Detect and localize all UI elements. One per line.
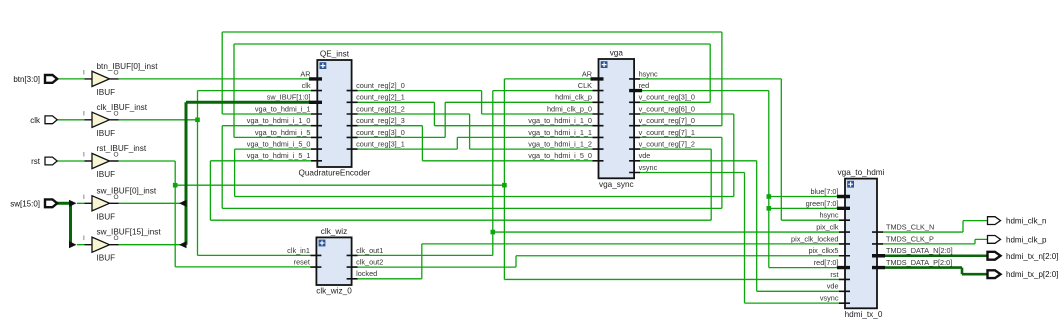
svg-text:hsync: hsync [639, 69, 658, 78]
svg-text:sw_IBUF[1:0]: sw_IBUF[1:0] [267, 93, 311, 102]
svg-text:vsync: vsync [820, 294, 839, 303]
svg-text:vga_to_hdmi_i_5: vga_to_hdmi_i_5 [255, 128, 311, 137]
svg-text:vga_to_hdmi_i_5_1: vga_to_hdmi_i_5_1 [247, 151, 311, 160]
svg-text:btn[3:0]: btn[3:0] [13, 75, 40, 84]
svg-text:v_count_reg[7]_0: v_count_reg[7]_0 [639, 116, 695, 125]
svg-text:QuadratureEncoder: QuadratureEncoder [298, 169, 370, 178]
svg-text:hdmi_clk_p_0: hdmi_clk_p_0 [547, 104, 592, 113]
svg-text:vga_to_hdmi_i_1_0: vga_to_hdmi_i_1_0 [528, 116, 592, 125]
svg-text:rst_IBUF_inst: rst_IBUF_inst [97, 144, 147, 153]
svg-text:vga_to_hdmi_i_1_0: vga_to_hdmi_i_1_0 [247, 116, 311, 125]
svg-text:I: I [83, 235, 85, 242]
svg-text:I: I [83, 152, 85, 159]
svg-text:O: O [114, 110, 119, 117]
svg-text:CLK: CLK [578, 81, 592, 90]
svg-text:vga: vga [610, 49, 624, 58]
svg-text:clk: clk [30, 116, 41, 125]
svg-text:hsync: hsync [819, 211, 838, 220]
svg-text:vga_sync: vga_sync [599, 180, 634, 189]
svg-text:rst: rst [31, 157, 41, 166]
svg-text:IBUF: IBUF [97, 88, 116, 97]
svg-text:clk_IBUF_inst: clk_IBUF_inst [97, 103, 148, 112]
svg-text:v_count_reg[7]_2: v_count_reg[7]_2 [639, 140, 695, 149]
svg-text:I: I [83, 110, 85, 117]
svg-text:sw_IBUF[0]_inst: sw_IBUF[0]_inst [97, 186, 157, 195]
svg-text:vga_to_hdmi: vga_to_hdmi [838, 168, 885, 177]
svg-text:blue[7:0]: blue[7:0] [811, 187, 839, 196]
svg-text:I: I [83, 69, 85, 76]
svg-text:AR: AR [582, 69, 592, 78]
svg-text:count_reg[2]_1: count_reg[2]_1 [356, 93, 405, 102]
svg-text:TMDS_CLK_N: TMDS_CLK_N [886, 222, 934, 231]
svg-text:QE_inst: QE_inst [320, 50, 350, 59]
svg-text:hdmi_clk_p: hdmi_clk_p [1006, 235, 1047, 244]
svg-text:vsync: vsync [639, 163, 658, 172]
svg-text:vga_to_hdmi_i_5_0: vga_to_hdmi_i_5_0 [247, 140, 311, 149]
svg-text:O: O [114, 235, 119, 242]
svg-text:clk_in1: clk_in1 [287, 246, 310, 255]
svg-text:IBUF: IBUF [97, 212, 116, 221]
svg-text:vga_to_hdmi_i_5_0: vga_to_hdmi_i_5_0 [528, 151, 592, 160]
svg-text:v_count_reg[7]_1: v_count_reg[7]_1 [639, 128, 695, 137]
svg-text:IBUF: IBUF [97, 170, 116, 179]
svg-text:hdmi_clk_p: hdmi_clk_p [555, 93, 592, 102]
svg-text:O: O [114, 152, 119, 159]
svg-text:btn_IBUF[0]_inst: btn_IBUF[0]_inst [97, 62, 159, 71]
svg-text:vga_to_hdmi_i_1: vga_to_hdmi_i_1 [255, 104, 311, 113]
svg-text:sw[15:0]: sw[15:0] [10, 199, 40, 208]
svg-text:count_reg[2]_0: count_reg[2]_0 [356, 81, 405, 90]
svg-text:pix_clkx5: pix_clkx5 [808, 246, 838, 255]
svg-text:vga_to_hdmi_i_1_2: vga_to_hdmi_i_1_2 [528, 140, 592, 149]
svg-text:clk_out2: clk_out2 [356, 258, 383, 267]
svg-text:count_reg[2]_3: count_reg[2]_3 [356, 116, 405, 125]
svg-text:AR: AR [300, 69, 310, 78]
svg-text:red[7:0]: red[7:0] [814, 258, 839, 267]
svg-text:O: O [114, 194, 119, 201]
svg-text:vga_to_hdmi_i_1_1: vga_to_hdmi_i_1_1 [528, 128, 592, 137]
svg-text:I: I [83, 194, 85, 201]
svg-text:hdmi_tx_n[2:0]: hdmi_tx_n[2:0] [1006, 252, 1058, 261]
svg-text:clk_out1: clk_out1 [356, 246, 383, 255]
svg-text:sw_IBUF[15]_inst: sw_IBUF[15]_inst [97, 228, 162, 237]
svg-text:green[7:0]: green[7:0] [806, 199, 839, 208]
svg-text:v_count_reg[6]_0: v_count_reg[6]_0 [639, 104, 695, 113]
svg-text:reset: reset [294, 258, 310, 267]
svg-text:hdmi_tx_p[2:0]: hdmi_tx_p[2:0] [1006, 270, 1058, 279]
svg-text:locked: locked [356, 269, 377, 278]
svg-text:IBUF: IBUF [97, 129, 116, 138]
svg-text:TMDS_DATA_P[2:0]: TMDS_DATA_P[2:0] [886, 258, 952, 267]
svg-text:clk: clk [302, 81, 311, 90]
svg-text:TMDS_CLK_P: TMDS_CLK_P [886, 234, 934, 243]
svg-text:vde: vde [639, 151, 651, 160]
svg-text:hdmi_clk_n: hdmi_clk_n [1006, 217, 1046, 226]
svg-text:v_count_reg[3]_0: v_count_reg[3]_0 [639, 93, 695, 102]
svg-text:rst: rst [830, 270, 838, 279]
svg-text:hdmi_tx_0: hdmi_tx_0 [845, 310, 883, 319]
svg-text:vde: vde [827, 282, 839, 291]
svg-text:red: red [639, 81, 650, 90]
svg-text:count_reg[3]_1: count_reg[3]_1 [356, 140, 405, 149]
svg-text:IBUF: IBUF [97, 254, 116, 263]
svg-text:count_reg[3]_0: count_reg[3]_0 [356, 128, 405, 137]
svg-text:clk_wiz_0: clk_wiz_0 [316, 287, 352, 296]
svg-text:count_reg[2]_2: count_reg[2]_2 [356, 104, 405, 113]
svg-text:pix_clk: pix_clk [816, 222, 839, 231]
svg-text:O: O [114, 69, 119, 76]
svg-text:pix_clk_locked: pix_clk_locked [791, 234, 838, 243]
svg-text:clk_wiz: clk_wiz [321, 227, 347, 236]
svg-text:TMDS_DATA_N[2:0]: TMDS_DATA_N[2:0] [886, 246, 953, 255]
